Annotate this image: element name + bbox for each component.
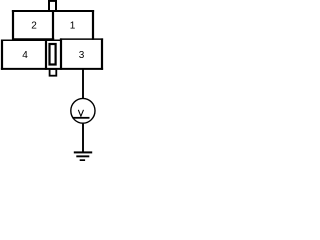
ground bar 2: [76, 155, 89, 157]
ground bar 3: [80, 159, 85, 161]
wire from terminal 3 down to voltmeter: [82, 69, 84, 99]
wire left edge of terminal 3: [60, 38, 62, 69]
wire divider between terminal 2 and terminal 1: [52, 10, 54, 39]
voltmeter glyph V: [78, 110, 83, 116]
wire left edge of terminal 4: [1, 40, 3, 70]
fuse F1 (thick bordered rectangle in middle cell): [50, 44, 56, 65]
wire top edge of terminal 4 and fuse cell: [1, 39, 62, 41]
connector tab top (pin tab above terminal block): [49, 1, 56, 11]
wire divider between terminal 4 and fuse cell: [45, 40, 47, 70]
connector tab bottom (pin tab below fuse cell): [50, 69, 57, 76]
svg-text:1: 1: [70, 20, 76, 31]
wire right edge of terminal 1: [92, 10, 94, 40]
wire top edge of terminal block row 1: [12, 10, 94, 12]
voltmeter underline: [73, 117, 90, 119]
svg-text:4: 4: [22, 50, 28, 61]
voltmeter U1 (circle): [71, 98, 95, 123]
wire left edge of terminal 2: [12, 10, 14, 39]
background: [0, 0, 105, 161]
wire right edge of terminal 3: [101, 38, 103, 69]
wire top edge of terminal 3 and bottom of terminal 1: [60, 38, 103, 40]
wire from voltmeter down to ground: [82, 124, 84, 153]
svg-text:2: 2: [31, 20, 37, 31]
wire bottom edge of terminal block row 2: [1, 68, 103, 70]
svg-text:3: 3: [79, 50, 85, 61]
ground bar 1: [74, 151, 92, 153]
wire bottom edge of terminal 2: [12, 38, 54, 40]
